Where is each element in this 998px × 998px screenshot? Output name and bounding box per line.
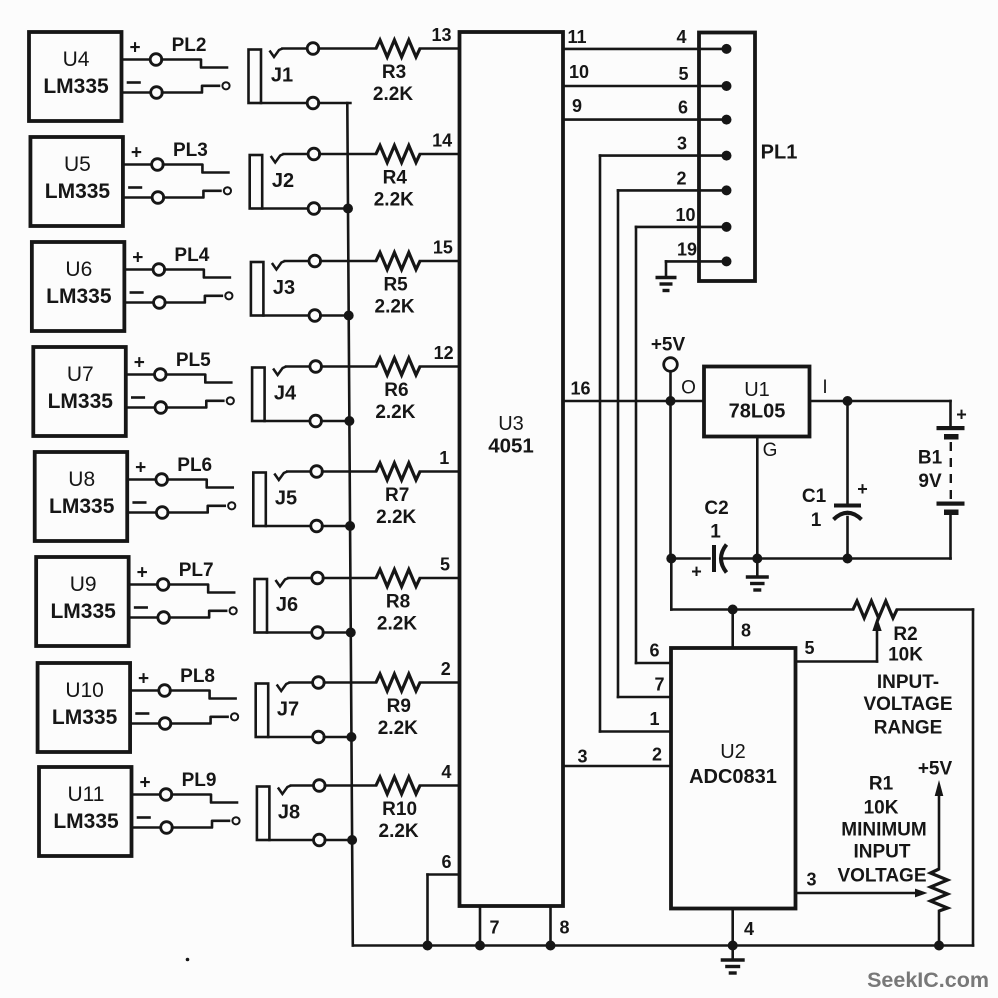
svg-text:PL4: PL4 <box>174 245 209 266</box>
junction on bus at J8 <box>347 835 357 845</box>
wire power rail <box>671 557 709 560</box>
jack J3 <box>251 262 264 316</box>
svg-text:LM335: LM335 <box>45 180 111 203</box>
svg-text:1: 1 <box>649 709 659 729</box>
svg-text:8: 8 <box>559 918 569 938</box>
resistor R6 2.2K <box>321 365 376 368</box>
wire U3 pin 9 to PL1 pin 6 <box>563 118 727 121</box>
svg-text:10: 10 <box>675 205 695 225</box>
U10 minus terminal <box>137 712 149 715</box>
svg-text:2.2K: 2.2K <box>375 297 415 318</box>
svg-text:VOLTAGE: VOLTAGE <box>837 866 926 887</box>
svg-text:10K: 10K <box>864 798 899 819</box>
svg-text:16: 16 <box>570 379 590 399</box>
U8 minus terminal <box>134 501 146 504</box>
IC U2 ADC0831 <box>671 648 796 909</box>
jack J3 sleeve wire <box>263 314 309 317</box>
svg-text:J8: J8 <box>278 802 300 824</box>
svg-text:U8: U8 <box>68 468 95 491</box>
svg-text:2.2K: 2.2K <box>374 190 414 211</box>
svg-text:+: + <box>691 562 702 582</box>
wire: jack common bus <box>347 103 353 946</box>
sensor U4 LM335 <box>29 32 122 121</box>
jack J7 <box>256 684 269 738</box>
junction on bus at J6 <box>346 628 356 638</box>
svg-text:+: + <box>857 479 868 499</box>
svg-text:R6: R6 <box>384 380 408 401</box>
svg-text:R10: R10 <box>382 799 417 820</box>
svg-text:U9: U9 <box>70 573 97 596</box>
svg-text:LM335: LM335 <box>52 706 118 729</box>
svg-text:6: 6 <box>678 98 688 118</box>
ground at U2 pin 4 <box>731 946 734 960</box>
svg-text:+: + <box>135 458 146 479</box>
svg-text:5: 5 <box>678 64 688 84</box>
svg-text:R8: R8 <box>386 592 410 613</box>
svg-text:LM335: LM335 <box>46 285 112 308</box>
resistor R5 2.2K <box>320 260 376 263</box>
svg-text:VOLTAGE: VOLTAGE <box>863 694 952 715</box>
svg-text:15: 15 <box>433 238 453 258</box>
wire U2 pin3 to R1 wiper <box>796 892 923 895</box>
R2 wiper arrow <box>876 631 879 662</box>
wire bottom ground rail <box>353 944 973 947</box>
svg-text:2.2K: 2.2K <box>376 507 416 528</box>
svg-text:2: 2 <box>652 745 662 765</box>
svg-text:R2: R2 <box>893 624 917 645</box>
U11 minus terminal <box>138 816 150 819</box>
ground at U1 G <box>756 559 759 577</box>
junction on bus at J2 <box>343 204 353 214</box>
svg-text:4051: 4051 <box>488 435 534 458</box>
svg-text:+: + <box>137 563 148 584</box>
jack J6 <box>255 579 268 633</box>
jack J2 <box>250 155 263 209</box>
svg-text:U4: U4 <box>63 48 90 71</box>
svg-text:PL7: PL7 <box>179 560 214 581</box>
svg-text:+: + <box>139 773 150 794</box>
jack J7 sleeve wire <box>268 736 313 739</box>
svg-text:+: + <box>131 143 142 164</box>
U2 pin 1 <box>600 730 671 733</box>
U4 minus terminal <box>128 81 140 84</box>
U5 minus terminal <box>129 186 141 189</box>
svg-text:PL1: PL1 <box>761 142 798 164</box>
jack J5 sleeve wire <box>266 525 311 528</box>
resistor R8 2.2K <box>323 577 376 580</box>
svg-text:LM335: LM335 <box>48 390 114 413</box>
svg-text:2: 2 <box>441 659 451 679</box>
capacitor C1 1 <box>846 401 849 504</box>
svg-text:3: 3 <box>677 134 687 154</box>
sensor U10 LM335 <box>38 663 131 752</box>
svg-text:PL2: PL2 <box>172 35 207 56</box>
svg-text:PL6: PL6 <box>177 455 212 476</box>
svg-text:3: 3 <box>806 870 816 890</box>
svg-text:PL5: PL5 <box>176 350 211 371</box>
node R1 bottom <box>934 941 944 951</box>
svg-text:+: + <box>129 38 140 59</box>
svg-text:14: 14 <box>432 131 452 151</box>
wire +5V node down to C2 <box>669 401 672 559</box>
svg-text:B1: B1 <box>918 448 943 469</box>
svg-text:2.2K: 2.2K <box>375 402 415 423</box>
speck <box>186 958 190 962</box>
svg-text:+: + <box>138 669 149 690</box>
svg-text:4: 4 <box>676 27 686 47</box>
sensor U5 LM335 <box>30 137 123 226</box>
svg-text:R9: R9 <box>387 696 411 717</box>
svg-text:J1: J1 <box>271 65 293 87</box>
wire PL1 pin 2 riser to U2 pin 7 <box>618 189 727 192</box>
svg-text:4: 4 <box>744 919 754 939</box>
svg-text:+5V: +5V <box>651 335 686 356</box>
U7 minus terminal <box>132 396 144 399</box>
svg-text:11: 11 <box>567 27 586 47</box>
wire U3 pin16 to U1 output <box>563 400 704 403</box>
svg-text:U5: U5 <box>64 153 91 176</box>
svg-text:2.2K: 2.2K <box>373 84 413 105</box>
U2 pin 7 <box>618 696 671 699</box>
svg-text:2.2K: 2.2K <box>379 821 419 842</box>
svg-text:U11: U11 <box>68 783 105 806</box>
svg-text:C1: C1 <box>802 486 827 507</box>
resistor R7 2.2K <box>322 470 376 473</box>
wire PL1 pin 19 to ground <box>666 260 727 263</box>
svg-text:U10: U10 <box>65 679 104 702</box>
wire PL1 pin 10 riser to U2 pin 6 <box>636 226 727 229</box>
svg-text:LM335: LM335 <box>50 600 116 623</box>
svg-text:INPUT: INPUT <box>854 842 911 863</box>
svg-text:G: G <box>763 440 778 461</box>
svg-text:9V: 9V <box>918 471 942 492</box>
ground at PL1 pin 19 <box>656 276 677 279</box>
junction on bus at J4 <box>344 416 354 426</box>
svg-text:4: 4 <box>441 762 451 782</box>
jack J4 <box>252 368 265 422</box>
svg-text:J2: J2 <box>272 170 294 192</box>
svg-text:LM335: LM335 <box>43 75 109 98</box>
svg-text:J6: J6 <box>276 594 298 616</box>
svg-text:5: 5 <box>804 638 814 658</box>
wire U1 input to battery <box>810 400 951 403</box>
svg-text:+: + <box>132 248 143 269</box>
svg-text:7: 7 <box>489 918 499 938</box>
U2 pin 4 <box>731 909 734 946</box>
jack J8 <box>257 787 270 841</box>
svg-text:R5: R5 <box>383 275 408 296</box>
junction on bus at J5 <box>345 521 355 531</box>
U3 pin 6 <box>428 873 460 876</box>
svg-text:19: 19 <box>677 239 697 259</box>
wire U3 pin 10 to PL1 pin 5 <box>563 85 727 88</box>
connector PL1 <box>699 33 755 282</box>
svg-text:6: 6 <box>649 641 659 661</box>
svg-text:PL8: PL8 <box>180 666 215 687</box>
resistor R9 2.2K <box>324 681 376 684</box>
sensor U11 LM335 <box>39 767 132 856</box>
jack J1 sleeve wire <box>261 102 308 105</box>
svg-text:J4: J4 <box>274 383 297 405</box>
jack J1 <box>249 50 262 104</box>
svg-text:1: 1 <box>439 448 449 468</box>
svg-text:LM335: LM335 <box>53 810 119 833</box>
svg-text:2: 2 <box>676 168 686 188</box>
svg-text:J3: J3 <box>273 277 295 299</box>
svg-text:INPUT-: INPUT- <box>877 672 939 693</box>
junction on bus at J3 <box>344 311 354 321</box>
resistor R4 2.2K <box>319 153 376 156</box>
svg-text:9: 9 <box>572 96 582 116</box>
svg-text:SeekIC.com: SeekIC.com <box>867 968 989 992</box>
U2 pin 6 <box>636 662 671 665</box>
junction on bus at J7 <box>346 732 356 742</box>
regulator U1 78L05 <box>704 367 810 437</box>
wire +5V rail to R2 <box>670 559 673 610</box>
node +5V junction <box>666 396 676 406</box>
potentiometer R1 10K <box>931 869 948 911</box>
svg-text:PL3: PL3 <box>173 140 208 161</box>
svg-text:I: I <box>822 377 827 398</box>
svg-text:J7: J7 <box>277 699 299 721</box>
svg-text:12: 12 <box>434 343 454 363</box>
svg-text:J5: J5 <box>275 488 297 510</box>
wire PL1 pin 3 riser to U2 pin 1 <box>600 154 727 157</box>
node U2 pin8 junction <box>728 605 738 615</box>
svg-text:2.2K: 2.2K <box>378 718 418 739</box>
svg-text:RANGE: RANGE <box>874 718 943 739</box>
wire U3 pin 11 to PL1 pin 4 <box>563 48 727 51</box>
svg-text:10: 10 <box>569 62 589 82</box>
svg-text:3: 3 <box>577 747 587 767</box>
svg-text:LM335: LM335 <box>49 495 115 518</box>
jack J8 sleeve wire <box>269 839 313 842</box>
sensor U7 LM335 <box>33 347 126 436</box>
svg-text:R7: R7 <box>385 485 409 506</box>
svg-text:C2: C2 <box>704 498 728 519</box>
node U1-I / C1 junction <box>843 396 853 406</box>
svg-text:78L05: 78L05 <box>729 401 786 423</box>
svg-text:U2: U2 <box>720 741 746 763</box>
svg-text:U1: U1 <box>744 379 770 401</box>
sensor U9 LM335 <box>36 557 128 646</box>
U3 pin 8 <box>549 906 552 946</box>
svg-text:U7: U7 <box>67 363 94 386</box>
wire battery minus to rail <box>949 515 952 559</box>
wire right edge down <box>972 610 975 946</box>
svg-text:1: 1 <box>811 510 822 531</box>
svg-text:6: 6 <box>441 852 451 872</box>
svg-text:U3: U3 <box>498 413 524 435</box>
svg-text:PL9: PL9 <box>182 770 217 791</box>
svg-text:8: 8 <box>741 621 751 641</box>
resistor R10 2.2K <box>325 784 376 787</box>
jack J5 <box>253 473 265 527</box>
wire U3 pin3 to U2 pin2 <box>563 765 671 768</box>
jack J6 sleeve wire <box>267 631 312 634</box>
svg-text:R4: R4 <box>383 168 408 189</box>
svg-text:10K: 10K <box>888 645 923 666</box>
svg-text:ADC0831: ADC0831 <box>689 766 777 788</box>
sensor U6 LM335 <box>32 242 125 331</box>
potentiometer R2 10K <box>853 601 897 618</box>
svg-text:+: + <box>956 405 967 425</box>
wire U2 pin5 to R2 wiper <box>796 660 878 663</box>
jack J2 sleeve wire <box>262 207 308 210</box>
svg-text:R3: R3 <box>382 62 406 83</box>
svg-text:13: 13 <box>431 25 451 45</box>
svg-text:R1: R1 <box>869 774 894 795</box>
jack J4 sleeve wire <box>265 420 311 423</box>
svg-text:+5V: +5V <box>918 759 953 780</box>
svg-text:MINIMUM: MINIMUM <box>841 820 926 841</box>
svg-text:2.2K: 2.2K <box>377 614 417 635</box>
U3 pin 7 <box>479 906 482 946</box>
svg-text:1: 1 <box>710 522 721 543</box>
sensor U8 LM335 <box>35 452 128 541</box>
svg-text:O: O <box>681 378 696 399</box>
svg-text:7: 7 <box>654 675 664 695</box>
U6 minus terminal <box>131 291 143 294</box>
resistor R3 2.2K <box>319 47 377 50</box>
IC U3 4051 <box>460 32 564 906</box>
U9 minus terminal <box>135 606 147 609</box>
svg-text:+: + <box>134 353 145 374</box>
svg-text:5: 5 <box>440 555 450 575</box>
svg-text:U6: U6 <box>65 258 92 281</box>
